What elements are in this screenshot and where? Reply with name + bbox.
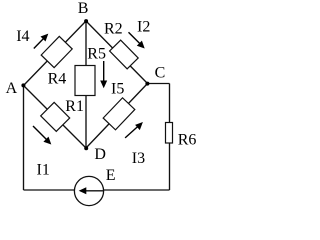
svg-text:I1: I1 xyxy=(37,162,50,179)
svg-text:R2: R2 xyxy=(104,20,123,37)
svg-text:B: B xyxy=(78,0,89,17)
svg-text:C: C xyxy=(155,64,166,81)
svg-text:R4: R4 xyxy=(48,70,67,87)
svg-text:A: A xyxy=(6,80,18,97)
svg-text:I3: I3 xyxy=(132,150,145,167)
svg-text:I4: I4 xyxy=(16,28,29,45)
svg-text:R6: R6 xyxy=(178,132,197,149)
svg-text:D: D xyxy=(94,146,106,163)
svg-text:I5: I5 xyxy=(111,80,124,97)
svg-text:I2: I2 xyxy=(137,18,150,35)
svg-text:R1: R1 xyxy=(65,98,84,115)
svg-text:E: E xyxy=(106,167,116,184)
svg-text:R5: R5 xyxy=(87,45,106,62)
